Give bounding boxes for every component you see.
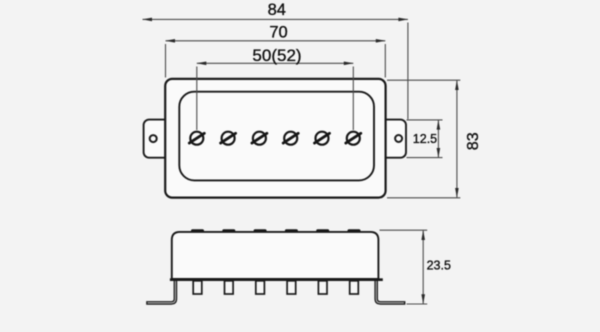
svg-text:12.5: 12.5 xyxy=(413,132,437,146)
svg-text:84: 84 xyxy=(268,1,286,19)
svg-text:50(52): 50(52) xyxy=(252,46,301,65)
svg-text:23.5: 23.5 xyxy=(427,259,451,273)
svg-text:83: 83 xyxy=(465,132,482,150)
svg-text:70: 70 xyxy=(269,23,287,41)
